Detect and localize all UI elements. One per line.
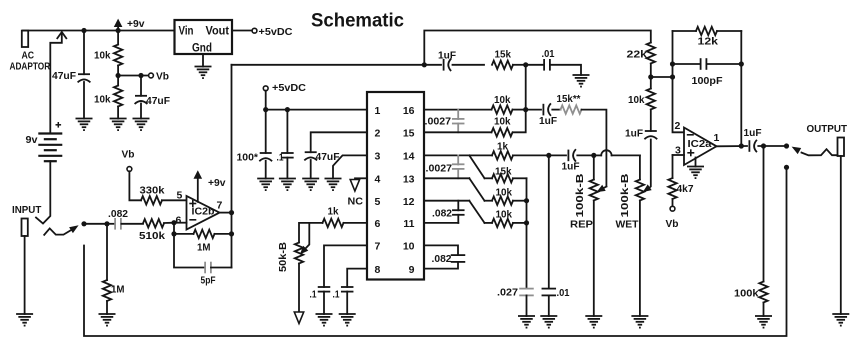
- potentiometer 50k-B: [295, 243, 303, 312]
- wire IC2b output: [220, 212, 232, 214]
- capacitor 100uF supply: [259, 110, 272, 179]
- input jack J1: [22, 219, 28, 237]
- svg-text:10k: 10k: [94, 50, 111, 62]
- capacitor 5pF feedback: [174, 234, 232, 273]
- wire pin14 row: [424, 154, 492, 156]
- svg-text:+9v: +9v: [127, 18, 145, 30]
- IC1 pin numbers: [375, 105, 415, 276]
- node mix junction lower: [524, 220, 529, 225]
- label .027: [497, 287, 518, 299]
- node IC2b output junction: [229, 210, 234, 215]
- node junction rail-10k: [116, 28, 121, 33]
- node Vb divider junction: [116, 73, 121, 78]
- svg-text:100*: 100*: [237, 152, 259, 164]
- ground below REP: [585, 316, 602, 328]
- label .082 second: [432, 253, 452, 265]
- wire shield bus: [84, 167, 787, 336]
- node 1M input junction: [104, 221, 109, 226]
- capacitor 1uF 22k-chain: [644, 131, 657, 139]
- resistor 4k7: [668, 155, 676, 206]
- label 10k R1: [94, 50, 111, 62]
- node 100k junction: [761, 143, 766, 148]
- label 50k-B: [277, 242, 289, 272]
- wire input node: [84, 223, 107, 225]
- wire pin7 to 0.1uF: [324, 245, 367, 287]
- node bus top at output: [784, 165, 789, 170]
- ground below 100k: [755, 316, 772, 328]
- label 12k: [698, 36, 719, 48]
- svg-text:3: 3: [375, 151, 381, 163]
- svg-text:5pF: 5pF: [201, 275, 216, 287]
- svg-text:9v: 9v: [26, 134, 38, 146]
- node junction 100uF: [263, 107, 268, 112]
- wire IC2a output: [717, 145, 748, 147]
- wire feedback right vertical: [740, 31, 742, 146]
- terminal Vb IC2b: [127, 167, 132, 172]
- terminal +5vDC: [252, 28, 257, 33]
- ground below pin8 cap: [339, 314, 356, 326]
- ground below regulator: [195, 67, 212, 79]
- svg-text:4k7: 4k7: [677, 183, 694, 195]
- resistor 10k 22k-chain: [647, 77, 655, 131]
- label 47uF pin2: [316, 151, 341, 163]
- label Vout: [206, 24, 230, 38]
- resistor 15k pin13: [485, 174, 527, 182]
- resistor 10k mix upper: [485, 197, 527, 205]
- label 100*: [237, 152, 259, 164]
- svg-text:ADAPTOR: ADAPTOR: [10, 61, 51, 73]
- output squiggle arrow: [792, 147, 838, 156]
- input signal squiggle arrow: [44, 225, 78, 235]
- svg-text:Vout: Vout: [206, 24, 230, 38]
- NC open arrow pin4: [350, 180, 359, 192]
- ground below 100uF: [257, 179, 274, 191]
- svg-text:.01: .01: [542, 48, 555, 60]
- capacitor .027: [519, 289, 534, 316]
- capacitor 0.1uF supply: [281, 110, 294, 179]
- svg-text:15k**: 15k**: [557, 93, 582, 105]
- ground below 0.1uF: [279, 179, 296, 191]
- svg-text:47uF: 47uF: [52, 70, 77, 82]
- wire regulator ground: [202, 54, 204, 67]
- ground below C9: [76, 119, 93, 131]
- capacitor .082 input: [110, 218, 144, 230]
- label WET: [616, 219, 640, 231]
- svg-text:1M: 1M: [111, 284, 125, 296]
- label pin6 IC2b: [176, 215, 182, 227]
- label pin7 IC2b: [217, 200, 223, 212]
- resistor 10k pin16: [492, 105, 526, 113]
- resistor 15k** gray: [561, 105, 582, 113]
- svg-text:10k: 10k: [496, 187, 513, 199]
- svg-text:7: 7: [217, 200, 223, 212]
- capacitor C9 47uF: [78, 74, 91, 82]
- svg-text:1uF: 1uF: [539, 115, 558, 127]
- wire pin11 row: [424, 222, 458, 224]
- label 10k mix lower: [496, 209, 513, 221]
- wire input jack sleeve to ground: [24, 236, 26, 314]
- terminal Vb: [149, 73, 154, 78]
- label 1uF output: [744, 127, 763, 139]
- label +9v IC2b: [208, 177, 226, 189]
- label pin5 IC2b: [177, 190, 183, 202]
- capacitor .01 to ground: [542, 155, 557, 316]
- wire output jack sleeve: [840, 156, 842, 314]
- svg-text:Vb: Vb: [666, 218, 679, 230]
- arrow +9v: [114, 19, 123, 31]
- capacitor .082 pins10-9: [424, 255, 465, 269]
- label Gnd: [192, 41, 212, 55]
- svg-text:1k: 1k: [328, 206, 339, 218]
- battery plus sign: [56, 122, 62, 128]
- svg-text:.1: .1: [277, 152, 284, 164]
- svg-text:100pF: 100pF: [692, 75, 724, 87]
- label 15k pin13: [495, 166, 512, 178]
- label .082 first: [432, 208, 452, 220]
- ground below WET: [631, 316, 648, 328]
- output jack J2: [838, 138, 845, 157]
- label 100pF: [692, 75, 724, 87]
- label 100k-B REP: [574, 173, 586, 218]
- svg-text:6: 6: [375, 218, 381, 230]
- svg-text:Schematic: Schematic: [311, 10, 404, 32]
- resistor R2 10k lower: [114, 76, 122, 119]
- label .01 bottom: [557, 287, 570, 299]
- label INPUT: [12, 204, 42, 216]
- wire pin10 row: [424, 245, 458, 255]
- label NC: [348, 196, 364, 208]
- label 9v: [26, 134, 38, 146]
- svg-text:+5vDC: +5vDC: [259, 26, 293, 38]
- ground below R2: [110, 119, 127, 131]
- label 1uF delay branch: [539, 115, 558, 127]
- label Vin: [179, 24, 194, 38]
- ground below input jack: [16, 314, 33, 326]
- capacitor .082 pins12-11: [452, 201, 465, 223]
- capacitor .0027 pins14-13: [452, 155, 465, 178]
- svg-text:1: 1: [375, 105, 381, 117]
- label +5vDC at IC1: [272, 82, 306, 94]
- label .1 pin8: [333, 289, 340, 301]
- svg-text:.027: .027: [497, 287, 518, 299]
- svg-text:4: 4: [375, 174, 381, 186]
- svg-text:.1: .1: [310, 289, 317, 301]
- title Schematic: [311, 10, 404, 32]
- node output junction: [784, 143, 789, 148]
- resistor 1k pin14: [492, 151, 547, 159]
- wire pin2 to 47uF: [311, 132, 367, 152]
- wire pin13 row: [424, 177, 469, 179]
- label 10k mix upper: [496, 187, 513, 199]
- ground pin3: [325, 179, 342, 191]
- terminal Vb 4k7: [670, 206, 675, 211]
- label 1M input: [111, 284, 125, 296]
- label pin2 IC2a: [675, 120, 681, 132]
- IC1 16-pin box: [367, 92, 424, 280]
- svg-text:330k: 330k: [140, 185, 165, 197]
- svg-text:.0027: .0027: [426, 163, 453, 175]
- ground below .01: [540, 316, 557, 328]
- capacitor C10 47uF on Vb: [135, 76, 148, 119]
- svg-text:47uF: 47uF: [146, 95, 171, 107]
- label pin1 IC2a: [714, 132, 720, 144]
- svg-text:6: 6: [176, 215, 182, 227]
- wire pin8 to 0.1uF: [347, 269, 367, 287]
- svg-text:+5vDC: +5vDC: [272, 82, 306, 94]
- svg-text:1uF: 1uF: [744, 127, 763, 139]
- wire pin12 row: [424, 200, 469, 202]
- label 47uF: [52, 70, 77, 82]
- label 22k: [627, 49, 648, 61]
- svg-text:1uF: 1uF: [562, 161, 581, 173]
- diagonal pin14 to 15k: [469, 155, 484, 178]
- resistor 1k pin6: [299, 219, 367, 243]
- label 47uF C10: [146, 95, 171, 107]
- svg-text:16: 16: [403, 105, 415, 117]
- node 1M left junction: [171, 231, 176, 236]
- capacitor 47uF pin2: [304, 152, 317, 178]
- svg-text:8: 8: [375, 264, 381, 276]
- wire pin3 IC2a: [673, 154, 685, 156]
- wire Vb junction to Vb terminal: [118, 75, 148, 77]
- svg-text:NC: NC: [348, 196, 364, 208]
- node input junction: [81, 221, 86, 226]
- label 1uF wet: [562, 161, 581, 173]
- svg-text:.082: .082: [108, 208, 128, 220]
- node row65 to pins junction: [523, 62, 528, 67]
- wire pin3 to ground: [333, 155, 367, 178]
- capacitor 0.1uF pin7: [318, 287, 331, 314]
- capacitor 1uF output: [749, 140, 786, 152]
- node pin6 junction: [171, 220, 176, 225]
- node IC2a out junction: [739, 143, 744, 148]
- label 1uF row65: [438, 50, 457, 62]
- wire Vb to 330k: [129, 171, 141, 200]
- label .0027 first: [425, 116, 452, 128]
- wire Vout to +5vDC: [232, 30, 252, 32]
- ground below 1M: [99, 314, 116, 326]
- wire feedback left vertical: [673, 31, 685, 132]
- resistor 10k mix lower: [485, 219, 527, 227]
- svg-text:IC2a: IC2a: [688, 138, 712, 150]
- svg-text:100k: 100k: [734, 288, 759, 300]
- capacitor 1uF wet: [549, 149, 594, 161]
- label .01 row65: [542, 48, 555, 60]
- svg-text:15k: 15k: [495, 49, 512, 61]
- svg-text:.01: .01: [557, 287, 570, 299]
- svg-text:IC2b: IC2b: [192, 206, 215, 218]
- ground below pin2 cap: [302, 179, 319, 191]
- label Vb 4k7: [666, 218, 679, 230]
- node junction rail-47uF: [81, 28, 86, 33]
- wire pin6 down to 1M: [173, 223, 175, 234]
- resistor 10k pin15: [424, 128, 513, 136]
- node 1M right junction: [229, 231, 234, 236]
- wire 47uF C9 stem: [83, 31, 85, 119]
- label 1uF 22k-chain: [625, 128, 644, 140]
- node junction 0.1uF: [285, 107, 290, 112]
- label .082 input: [108, 208, 128, 220]
- wire 15k** to REP wiper: [582, 110, 607, 187]
- svg-text:10k: 10k: [494, 94, 511, 106]
- node feedback left 100pF: [670, 61, 675, 66]
- svg-text:.082: .082: [432, 208, 452, 220]
- resistor 15k row65: [492, 61, 526, 69]
- capacitor .01 row65: [526, 59, 581, 75]
- wire IC2b out vertical riser: [231, 65, 233, 268]
- wire pin4 stub: [355, 177, 367, 179]
- resistor 100k output: [759, 146, 767, 316]
- resistor 1M feedback: [174, 230, 232, 238]
- wiper REP: [597, 185, 607, 192]
- svg-text:+9v: +9v: [208, 177, 226, 189]
- node mix junction upper: [524, 198, 529, 203]
- node feedback left junction: [670, 74, 675, 79]
- svg-text:.082: .082: [432, 253, 452, 265]
- potentiometer REP 100k-B: [590, 155, 598, 316]
- svg-text:2: 2: [375, 128, 381, 140]
- wire feedback top: [673, 30, 742, 32]
- ground below C10: [133, 119, 150, 131]
- terminal +5vDC at IC1: [263, 86, 268, 91]
- svg-text:INPUT: INPUT: [12, 204, 42, 216]
- svg-text:22k: 22k: [627, 49, 648, 61]
- node junction Vb-47uF: [138, 73, 143, 78]
- label 5pF: [201, 275, 216, 287]
- svg-text:5: 5: [177, 190, 183, 202]
- label 1k pin6: [328, 206, 339, 218]
- wire top bus to 22k: [424, 31, 651, 65]
- wire pins15-16 vertical: [513, 65, 526, 133]
- wiper 50k-B: [300, 223, 309, 255]
- node REP top junction: [591, 153, 596, 158]
- svg-text:1M: 1M: [197, 242, 211, 254]
- svg-text:.0027: .0027: [425, 116, 452, 128]
- svg-text:Vin: Vin: [179, 24, 194, 38]
- label Vb IC2b: [122, 149, 135, 161]
- label Vb: [156, 71, 169, 83]
- svg-text:10k: 10k: [494, 116, 511, 128]
- capacitor 1uF row65: [424, 59, 484, 71]
- svg-text:Gnd: Gnd: [192, 41, 212, 55]
- svg-text:1: 1: [714, 132, 720, 144]
- ground below .027: [518, 316, 535, 328]
- arrow +9v IC2b: [194, 170, 203, 202]
- battery BT1 9v: [38, 134, 62, 162]
- open arrow 50k-B bottom: [294, 312, 303, 324]
- wire +9v rail: [23, 30, 175, 32]
- svg-text:9: 9: [409, 264, 415, 276]
- node feedback right 100pF: [739, 61, 744, 66]
- label .0027 second: [426, 163, 453, 175]
- svg-text:100k-B: 100k-B: [574, 173, 586, 218]
- wire 22k junction to IC2a: [651, 76, 673, 78]
- svg-text:10k: 10k: [496, 209, 513, 221]
- svg-text:7: 7: [375, 241, 381, 253]
- label 100k-B WET: [619, 173, 631, 218]
- svg-text:12: 12: [403, 196, 415, 208]
- op-amp IC2a: [684, 128, 717, 166]
- resistor 1M to ground: [103, 224, 111, 314]
- svg-text:Vb: Vb: [156, 71, 169, 83]
- svg-text:10k: 10k: [628, 94, 645, 106]
- svg-text:12k: 12k: [698, 36, 719, 48]
- label OUTPUT: [807, 123, 848, 135]
- svg-text:50k-B: 50k-B: [277, 242, 289, 272]
- label 1k pin14: [497, 141, 508, 153]
- label .1 supply: [277, 152, 284, 164]
- capacitor 1uF delay branch: [526, 103, 561, 115]
- svg-text:1uF: 1uF: [438, 50, 457, 62]
- op-amp IC2b: [187, 196, 220, 230]
- svg-text:13: 13: [403, 174, 415, 186]
- capacitor 0.1uF pin8: [341, 287, 354, 314]
- potentiometer WET 100k-B: [636, 155, 644, 316]
- label .1 pin7: [310, 289, 317, 301]
- label 15k row65: [495, 49, 512, 61]
- svg-text:OUTPUT: OUTPUT: [807, 123, 848, 135]
- ground row65: [573, 75, 590, 87]
- label 100k output: [734, 288, 759, 300]
- label pin3 IC2a: [675, 145, 681, 157]
- svg-text:11: 11: [403, 218, 414, 230]
- label 4k7: [677, 183, 694, 195]
- svg-text:2: 2: [675, 120, 681, 132]
- capacitor .0027 pins16-15: [452, 110, 465, 133]
- node 22k-10k junction: [648, 74, 653, 79]
- svg-text:Vb: Vb: [122, 149, 135, 161]
- label 10k 22k-chain: [628, 94, 645, 106]
- wire mix vertical: [526, 178, 528, 287]
- label AC ADAPTOR: [10, 50, 51, 73]
- ground IC2a: [687, 158, 704, 179]
- svg-text:1uF: 1uF: [625, 128, 644, 140]
- wire +5vDC to pin1: [266, 91, 367, 110]
- svg-text:REP: REP: [570, 219, 593, 231]
- diagonal pin12 to 10k: [469, 201, 484, 223]
- svg-text:100k-B: 100k-B: [619, 173, 631, 218]
- capacitor 100pF feedback: [673, 58, 742, 70]
- wire hop over REP wiper: [594, 150, 640, 155]
- wire IC2b out up to row: [232, 64, 425, 66]
- node pin16 junction: [523, 107, 528, 112]
- resistor 22k: [647, 43, 655, 78]
- wire pin6 IC2b: [174, 222, 187, 224]
- label +5vDC: [259, 26, 293, 38]
- label 10k pin15: [494, 116, 511, 128]
- ground below output jack: [832, 314, 849, 326]
- svg-text:5: 5: [375, 196, 381, 208]
- ground below pin7 cap: [316, 314, 333, 326]
- label 10k pin16: [494, 94, 511, 106]
- svg-text:10: 10: [403, 241, 415, 253]
- svg-text:1k: 1k: [497, 141, 508, 153]
- label 10k R2: [94, 94, 111, 106]
- AC adaptor jack J3: [22, 31, 28, 47]
- resistor 330k: [141, 196, 187, 204]
- svg-text:WET: WET: [616, 219, 640, 231]
- diagonal pin13 to 10k: [469, 178, 484, 200]
- resistor 510k: [143, 219, 174, 227]
- label 15k**: [557, 93, 582, 105]
- svg-text:10k: 10k: [94, 94, 111, 106]
- svg-text:15k: 15k: [495, 166, 512, 178]
- wiper WET: [643, 140, 652, 193]
- svg-text:510k: 510k: [139, 230, 165, 242]
- svg-text:.1: .1: [333, 289, 340, 301]
- svg-text:14: 14: [403, 151, 415, 163]
- node 1k out junction: [546, 153, 551, 158]
